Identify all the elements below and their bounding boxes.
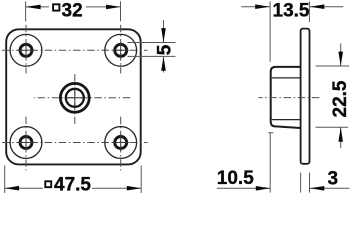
dim 22.5: arrow bottom xyxy=(340,127,342,148)
hole BR inner circle xyxy=(115,137,127,149)
dim 47.5: ext line left xyxy=(4,166,6,194)
hole BR cross ticks xyxy=(113,142,129,144)
dim 13.5: ext line right xyxy=(308,1,310,22)
side view plate xyxy=(301,29,310,164)
dim 22.5: arrow top xyxy=(340,43,342,66)
center boss cross ticks xyxy=(67,97,83,99)
dim 32: line left + arrow xyxy=(26,6,49,8)
hole BR vertical centerline xyxy=(120,115,122,171)
dim 32: ext line left xyxy=(25,1,27,21)
dim 3: ext line right xyxy=(309,173,311,193)
hole TL cross ticks xyxy=(18,49,34,51)
dim 22.5: ext line top xyxy=(316,65,350,67)
dim 47.5: line right + arrow xyxy=(92,187,141,189)
hole TR vertical centerline xyxy=(120,23,122,74)
hole BL vertical centerline xyxy=(25,115,27,171)
dim 5: arrow bottom xyxy=(163,56,165,72)
dim 5: ext line top xyxy=(128,42,176,44)
svg-text:32: 32 xyxy=(62,0,83,21)
center boss outer circle xyxy=(60,83,89,112)
hole BL inner circle xyxy=(20,137,32,149)
dim 10.5: ext line xyxy=(269,132,271,192)
svg-text:5: 5 xyxy=(154,44,175,55)
dim 13.5: line right + arrow xyxy=(310,6,343,8)
dim 47.5: square symbol xyxy=(45,181,51,187)
dim 3: ext line left xyxy=(300,173,302,193)
side view block inner line top xyxy=(272,77,301,79)
hole TR inner circle xyxy=(115,44,127,56)
svg-text:22.5: 22.5 xyxy=(330,80,350,117)
hole BL outer circle xyxy=(10,127,42,159)
hole row centerline top xyxy=(1,49,148,51)
dim 10.5: tick at block face xyxy=(268,132,273,134)
dim 47.5: ext line right xyxy=(140,166,142,194)
front view plate outline xyxy=(6,29,141,164)
hole TL outer circle xyxy=(10,34,42,66)
dim 32: ext line right xyxy=(120,1,122,21)
dim 10.5: line + arrow xyxy=(217,187,270,189)
hole BR outer circle xyxy=(105,127,137,159)
hole TL inner circle xyxy=(20,44,32,56)
hole TR cross ticks xyxy=(113,49,129,51)
dim 47.5: line left + arrow xyxy=(5,187,43,189)
dim 32: line right + arrow xyxy=(86,6,121,8)
dim 5: ext line bottom xyxy=(128,55,176,57)
dim 13.5: ext line left xyxy=(269,1,271,61)
hole BL cross ticks xyxy=(18,142,34,144)
center hole vertical centerline xyxy=(74,72,76,124)
side view block outline xyxy=(271,67,301,128)
side view centerline xyxy=(259,97,322,99)
hole row centerline bottom xyxy=(1,142,148,144)
dim 3: line + arrow xyxy=(310,187,350,189)
dim 13.5: line left + arrow xyxy=(241,6,270,8)
hole TL vertical centerline xyxy=(25,23,27,74)
dim 32: square symbol xyxy=(53,4,59,10)
svg-text:3: 3 xyxy=(328,168,339,189)
center boss inner circle xyxy=(66,89,84,107)
center hole horizontal centerline xyxy=(34,97,131,99)
hole TR outer circle xyxy=(105,34,137,66)
dim 22.5: ext line bottom xyxy=(316,126,349,128)
side view block inner line bottom xyxy=(272,119,301,121)
svg-text:47.5: 47.5 xyxy=(54,175,91,194)
svg-text:10.5: 10.5 xyxy=(217,168,254,189)
dim 5: arrow top xyxy=(163,20,165,43)
svg-text:13.5: 13.5 xyxy=(273,0,310,21)
